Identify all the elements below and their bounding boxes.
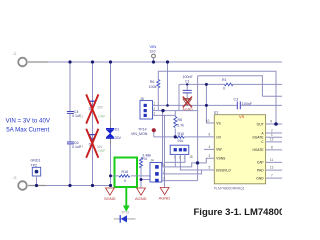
node pin2 row dot xyxy=(161,109,164,112)
node VSNS link dot xyxy=(196,161,199,164)
svg-text:J3: J3 xyxy=(13,176,17,180)
connector J6 xyxy=(170,145,189,154)
wire J5 pin3 row xyxy=(153,114,176,116)
svg-text:5.7k: 5.7k xyxy=(177,123,184,127)
svg-text:0: 0 xyxy=(124,179,126,183)
connector J5 xyxy=(140,101,153,119)
DNP X over D4 xyxy=(86,94,98,123)
svg-text:8: 8 xyxy=(271,145,273,149)
svg-text:91k: 91k xyxy=(178,139,184,143)
svg-text:12: 12 xyxy=(270,137,274,141)
svg-text:J2: J2 xyxy=(13,52,17,56)
svg-text:HGATE: HGATE xyxy=(252,148,264,152)
wire left end of R1 row down to pin2 row xyxy=(178,84,180,110)
svg-text:0: 0 xyxy=(223,87,225,91)
wire drop B from pin3 row to AGND xyxy=(164,115,166,187)
svg-text:TP7: TP7 xyxy=(149,50,156,54)
svg-text:36V: 36V xyxy=(97,106,104,110)
svg-text:TP2: TP2 xyxy=(31,163,38,167)
diode D6 (DNP) xyxy=(89,134,95,140)
svg-text:VS: VS xyxy=(239,114,245,119)
svg-text:EN/UVLO: EN/UVLO xyxy=(216,168,231,172)
wire VIN top rail xyxy=(28,61,282,63)
svg-text:R16: R16 xyxy=(122,170,129,174)
svg-text:33V: 33V xyxy=(115,136,122,140)
ground AGND mid xyxy=(160,188,169,195)
svg-text:TP15: TP15 xyxy=(122,211,130,215)
green highlight box around R16 xyxy=(115,158,138,188)
IC U1 LM74800 xyxy=(214,115,265,184)
wire VS feed vertical xyxy=(206,84,214,123)
svg-text:7: 7 xyxy=(271,174,273,178)
svg-text:5: 5 xyxy=(209,166,211,170)
svg-text:R6: R6 xyxy=(150,80,155,84)
wire y=76.2 from vertical to corner down xyxy=(198,76,282,97)
wire J4 pin2 row to EN xyxy=(162,170,202,174)
wire J6 pin3 down and left xyxy=(165,154,185,162)
svg-text:C3: C3 xyxy=(234,97,239,101)
wire C row xyxy=(266,141,282,143)
wire vertical x=70 xyxy=(69,62,71,186)
wire J5 pin1 row / C3 row xyxy=(153,104,283,106)
wire J5 pin2 row xyxy=(153,110,198,112)
ground SGND xyxy=(106,188,115,195)
svg-text:PAD: PAD xyxy=(257,168,264,172)
wire vertical x=92.5 xyxy=(92,62,94,186)
svg-text:100nF: 100nF xyxy=(183,75,194,79)
svg-text:SW: SW xyxy=(216,148,222,152)
connector J3 xyxy=(18,181,27,190)
wire DGATE row xyxy=(266,136,282,138)
svg-text:OV: OV xyxy=(216,135,222,139)
svg-text:13: 13 xyxy=(270,166,274,170)
green cursor arrow xyxy=(125,187,127,206)
svg-text:3: 3 xyxy=(163,177,165,181)
connector J4 xyxy=(150,163,162,183)
wire bottom rail xyxy=(28,185,111,187)
svg-text:9: 9 xyxy=(270,119,272,123)
wire J6 pin2 down to EN row xyxy=(180,154,214,170)
wire OUT row xyxy=(266,123,282,125)
wire J4 pin1 row to VSNS xyxy=(162,158,215,167)
node C3 row dots xyxy=(166,104,169,107)
svg-text:C1: C1 xyxy=(185,80,190,84)
svg-text:CAP: CAP xyxy=(257,161,265,165)
svg-text:DNP: DNP xyxy=(99,115,106,119)
svg-text:J5: J5 xyxy=(140,97,144,101)
testpoint TP2 with GND1 label xyxy=(32,167,40,176)
svg-text:11: 11 xyxy=(270,158,274,162)
wire TP14 row xyxy=(154,136,177,138)
svg-text:AGND: AGND xyxy=(135,196,147,201)
svg-text:2: 2 xyxy=(163,170,165,174)
svg-text:R1: R1 xyxy=(222,78,227,82)
svg-text:R8: R8 xyxy=(178,118,183,122)
resistor R8 xyxy=(174,111,176,117)
wire R6 bottom to J5 pin2 row xyxy=(157,88,159,111)
svg-text:AGND: AGND xyxy=(182,108,193,112)
wire gray stub from J2 xyxy=(28,61,48,63)
wire PAD row xyxy=(266,169,282,171)
wire GND row xyxy=(266,177,282,179)
node R1 row dots xyxy=(186,83,188,85)
svg-text:6: 6 xyxy=(209,133,211,137)
svg-text:VIN: VIN xyxy=(150,44,157,49)
wire J4 pin3 row xyxy=(162,180,198,182)
wire HGATE row xyxy=(266,149,282,151)
svg-text:R10: R10 xyxy=(178,132,185,136)
svg-text:DNP: DNP xyxy=(99,149,106,153)
wire vertical x=110.5 xyxy=(110,62,112,186)
svg-text:10: 10 xyxy=(206,119,210,123)
svg-text:100nF: 100nF xyxy=(242,102,253,106)
svg-text:VIN_MON: VIN_MON xyxy=(131,132,148,136)
diode D2 (DNP) with AGND xyxy=(183,99,191,106)
svg-text:VSNS: VSNS xyxy=(216,157,226,161)
svg-text:5A Max Current: 5A Max Current xyxy=(6,127,49,134)
svg-text:J4: J4 xyxy=(150,159,154,163)
svg-text:J6: J6 xyxy=(189,155,193,159)
wire gray stub from J3 xyxy=(28,185,46,187)
node R16 row dots xyxy=(109,174,112,177)
wire R10 right to OV xyxy=(184,136,214,138)
svg-text:GND1: GND1 xyxy=(31,159,41,163)
wire VIN drop x=167.5 xyxy=(167,62,169,105)
svg-text:OUT: OUT xyxy=(257,122,264,126)
svg-text:e1: e1 xyxy=(80,144,84,148)
capacitor C6 xyxy=(67,142,74,144)
node top rail dots xyxy=(68,60,71,63)
wire drop A from pin2 row xyxy=(162,111,164,167)
svg-text:e1: e1 xyxy=(80,114,84,118)
wire R16 row xyxy=(111,175,151,177)
svg-text:4: 4 xyxy=(209,145,211,149)
wire vertical x=197.5 xyxy=(197,76,199,181)
node TP14 row dot xyxy=(174,135,177,138)
svg-text:1: 1 xyxy=(163,163,165,167)
wire R6 top long run to OUT loop xyxy=(158,71,276,124)
capacitor C4 xyxy=(67,112,74,114)
wire J6 pin1 down xyxy=(174,154,176,167)
node OUT dot xyxy=(274,122,278,126)
ground AGND below R4 xyxy=(137,188,146,195)
svg-text:D1: D1 xyxy=(115,127,120,131)
wire CAP row xyxy=(266,161,282,163)
node bottom rail dots xyxy=(35,184,38,187)
svg-text:GND: GND xyxy=(256,176,264,180)
svg-text:SGND: SGND xyxy=(104,196,116,201)
svg-text:3: 3 xyxy=(209,154,211,158)
svg-text:100k: 100k xyxy=(149,85,157,89)
connector J2 xyxy=(18,58,27,67)
wire R1 row xyxy=(179,83,282,85)
svg-text:U1: U1 xyxy=(214,111,219,115)
wire SW stub xyxy=(204,148,214,150)
svg-text:Figure 3-1. LM74800Q: Figure 3-1. LM74800Q xyxy=(194,207,283,218)
svg-text:R4: R4 xyxy=(142,157,147,161)
wire A row xyxy=(266,132,282,134)
TVS D1 xyxy=(110,118,112,146)
svg-text:DGATE: DGATE xyxy=(252,136,264,140)
svg-text:VIN = 3V to 40V: VIN = 3V to 40V xyxy=(6,117,51,124)
diode D4 (DNP) xyxy=(89,101,95,107)
svg-text:PLM74800DRRRQ1: PLM74800DRRRQ1 xyxy=(214,186,245,190)
DNP X over D2 xyxy=(183,97,192,108)
DNP X over D6 xyxy=(86,129,98,158)
svg-text:AGND: AGND xyxy=(159,195,171,200)
